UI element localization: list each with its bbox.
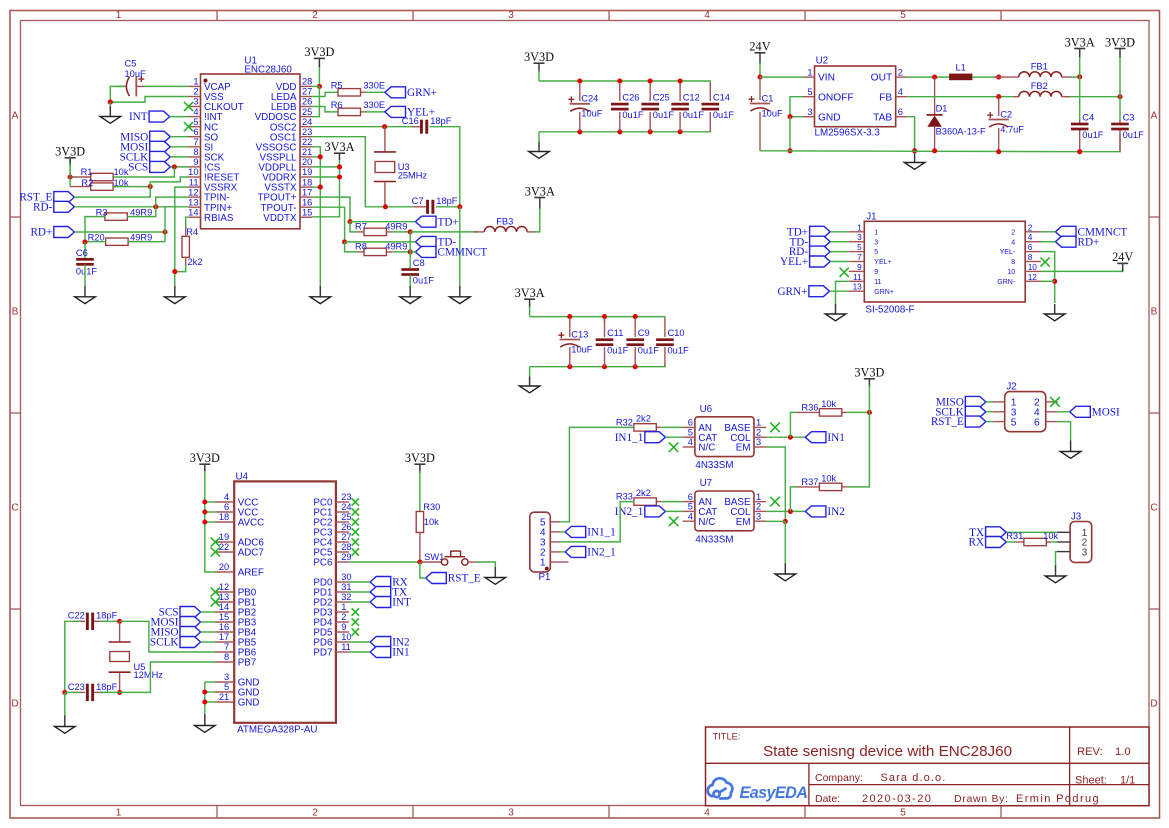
wire C26 top lead xyxy=(619,81,621,87)
svg-text:RST_E: RST_E xyxy=(448,573,481,585)
capacitor C8 0u1F xyxy=(401,258,434,286)
junction RD-/R3/TPIN- xyxy=(153,204,158,209)
wire R36 tap xyxy=(790,412,797,437)
junction xyxy=(108,100,113,105)
wire OUT row xyxy=(907,76,949,78)
ground (oscillator) xyxy=(450,286,471,304)
junction C7/C16/ground xyxy=(457,204,462,209)
svg-text:LM2596SX-3.3: LM2596SX-3.3 xyxy=(815,128,881,139)
wire RX to R31 xyxy=(1006,541,1016,543)
wire junction to C6 xyxy=(84,242,86,258)
wire pin 18 VSSTX xyxy=(312,186,320,188)
svg-text:13: 13 xyxy=(219,592,229,602)
C12 leads xyxy=(679,83,681,132)
svg-text:8: 8 xyxy=(1011,259,1015,266)
svg-text:0u1F: 0u1F xyxy=(76,266,98,276)
svg-text:2k2: 2k2 xyxy=(636,414,651,424)
wire pin 16 TPOUT- to TD- xyxy=(312,207,345,242)
wire pin 14 RBIAS to R4 xyxy=(186,217,189,227)
wire C23 to crystal node xyxy=(100,691,120,693)
wire C4 column xyxy=(1079,77,1081,121)
junction TAB/bus xyxy=(912,148,917,153)
ferrite bead FB1 xyxy=(1019,62,1062,78)
wire pin 11 VSSRX down xyxy=(175,187,189,286)
wire 3V3D down to FB2 junction xyxy=(1119,57,1121,97)
wire PC6 to R30 junction xyxy=(349,561,420,563)
ground (C8) xyxy=(400,286,421,304)
wire TX to J3 pin 1 xyxy=(1006,531,1057,533)
ground (VSSRX/R4) xyxy=(165,286,186,304)
capacitor C4 0u1F xyxy=(1071,112,1104,140)
R4 leads xyxy=(185,226,187,266)
svg-text:2: 2 xyxy=(1011,229,1015,236)
svg-text:3V3A: 3V3A xyxy=(1065,35,1095,49)
FB3 left lead xyxy=(474,231,484,233)
3V3D stem (U4) xyxy=(204,465,206,473)
junction FB1/3V3A/C4 xyxy=(1077,74,1082,79)
wire J1 pin 11 to ground xyxy=(836,281,849,305)
svg-text:3V3D: 3V3D xyxy=(854,366,884,380)
junction SCS/R1 xyxy=(172,164,177,169)
wire 3V3A column xyxy=(312,159,340,217)
svg-text:0u1F: 0u1F xyxy=(653,110,675,120)
svg-text:C3: C3 xyxy=(1123,112,1135,122)
svg-text:3: 3 xyxy=(756,437,761,447)
junction R2/RST_E xyxy=(148,184,153,189)
junction C23/ground xyxy=(62,690,67,695)
wire C11 top lead xyxy=(604,317,606,323)
svg-text:C23: C23 xyxy=(68,682,85,692)
svg-text:3V3A: 3V3A xyxy=(515,286,545,300)
resistor R2 10k xyxy=(70,178,129,190)
svg-text:C12: C12 xyxy=(683,93,700,103)
svg-text:6: 6 xyxy=(688,418,693,428)
power 3V3A (FB3) xyxy=(525,184,555,198)
svg-text:1: 1 xyxy=(540,558,546,569)
svg-text:C10: C10 xyxy=(668,328,685,338)
wire R6 to YEL+ xyxy=(366,111,385,113)
power 3V3A (FB1) xyxy=(1065,35,1095,49)
svg-text:R30: R30 xyxy=(423,502,440,512)
svg-text:10uF: 10uF xyxy=(762,108,784,118)
svg-text:7: 7 xyxy=(224,642,229,652)
svg-text:C7: C7 xyxy=(412,196,424,206)
junction bottom bus C26 xyxy=(617,129,622,134)
3V3D stem (R30) xyxy=(419,465,421,473)
junction VDD xyxy=(317,84,322,89)
C26 leads xyxy=(619,83,621,132)
wire 3V3D to R1 junction xyxy=(69,156,71,177)
svg-text:A: A xyxy=(1151,111,1158,122)
junction C4/bus xyxy=(1077,149,1082,154)
wire VSS pin 2 to node xyxy=(110,97,188,103)
wire FB2 to 3V3D junction xyxy=(1070,96,1120,98)
wire R8 to CMMNCT junction xyxy=(392,251,410,253)
svg-text:C16: C16 xyxy=(402,116,419,126)
junction U6 COL/R36 xyxy=(788,435,793,440)
svg-text:U2: U2 xyxy=(816,56,829,67)
junction top bus C24 xyxy=(577,78,582,83)
svg-text:0u1F: 0u1F xyxy=(668,346,690,356)
wire U7 EM xyxy=(766,520,785,522)
svg-text:49R9: 49R9 xyxy=(385,221,407,231)
svg-text:R3: R3 xyxy=(96,207,108,217)
ground (C5/VSS) xyxy=(100,106,121,123)
junction FB/C2 xyxy=(996,94,1001,99)
junction top bus C26 xyxy=(617,78,622,83)
svg-text:AREF: AREF xyxy=(238,568,264,579)
wire U4 to INT xyxy=(349,601,370,603)
C9 leads xyxy=(634,318,636,367)
power 3V3D (R30) xyxy=(405,451,435,465)
svg-text:PD7: PD7 xyxy=(313,648,332,659)
connector J2 xyxy=(993,382,1058,432)
net flag TD- (J1) xyxy=(789,236,830,248)
no-connect X PD row 622 xyxy=(352,618,359,625)
capacitor C26 0u1F xyxy=(611,93,644,121)
svg-text:A: A xyxy=(12,111,19,122)
junction bottom bus C11 xyxy=(602,364,607,369)
svg-text:21: 21 xyxy=(302,147,312,157)
svg-text:U6: U6 xyxy=(700,404,713,415)
svg-text:1: 1 xyxy=(756,492,761,502)
connector J3 xyxy=(1057,512,1092,563)
net flag YEL+ xyxy=(385,106,435,118)
wire C13 top lead xyxy=(569,317,571,323)
wire U4 GND column xyxy=(204,682,206,714)
C22 leads xyxy=(72,620,106,622)
connector P1 xyxy=(530,512,561,583)
wire P1 pin 5 to R32 xyxy=(560,427,634,521)
net flag IN1 xyxy=(805,432,845,444)
svg-text:18pF: 18pF xyxy=(96,682,118,692)
net flag IN2 xyxy=(805,506,845,518)
svg-text:18: 18 xyxy=(219,512,229,522)
junction R7/FB3 xyxy=(408,229,413,234)
wire J1 pin 6 YEL- down xyxy=(1041,252,1055,303)
net flag TX (J3) xyxy=(969,527,1006,539)
svg-text:3V3D: 3V3D xyxy=(190,451,220,465)
3V3D stem (cap bank) xyxy=(538,64,540,72)
no-connect X U6 N/C xyxy=(669,442,679,452)
wire pin 24 OSC2 to C16 xyxy=(312,126,414,128)
svg-text:IN2_1: IN2_1 xyxy=(615,506,644,518)
svg-text:R8: R8 xyxy=(355,241,367,251)
wire R31 to J3 pin 2 xyxy=(1051,541,1057,543)
net flag RD+ (J1) xyxy=(1055,236,1099,248)
wire U6 EM down xyxy=(766,447,785,521)
power 3V3D (cap bank) xyxy=(524,50,554,64)
3V3A stem (FB3) xyxy=(539,198,541,209)
net flag MISO (U4) xyxy=(151,627,201,639)
wire J2 pin 4 to MOSI xyxy=(1058,411,1070,413)
svg-text:3V3D: 3V3D xyxy=(524,50,554,64)
FB1 right lead xyxy=(1062,76,1072,78)
svg-text:9: 9 xyxy=(341,622,346,632)
wire TD- down to R8 xyxy=(345,242,358,252)
wire U4 GND rows xyxy=(205,681,216,683)
wire pin 17 TPOUT+ to TD+ xyxy=(312,197,350,222)
junction top bus C9 xyxy=(633,314,638,319)
svg-text:22: 22 xyxy=(302,137,312,147)
svg-text:4: 4 xyxy=(704,808,710,819)
wire R7 junction down to R8 junction xyxy=(409,232,411,252)
svg-text:16: 16 xyxy=(219,622,229,632)
svg-text:R5: R5 xyxy=(331,80,343,90)
svg-text:27: 27 xyxy=(302,87,312,97)
svg-text:YEL+: YEL+ xyxy=(780,256,808,268)
junction VSSTX xyxy=(318,185,323,190)
wire EM to ground xyxy=(784,521,786,564)
C24 leads xyxy=(579,83,581,132)
svg-text:0u1F: 0u1F xyxy=(638,346,660,356)
wire RST_E to J2 xyxy=(986,421,993,423)
power 24V (J1) xyxy=(1112,250,1133,264)
3V3A stem (3V3A bank) xyxy=(529,300,531,308)
svg-text:12: 12 xyxy=(188,187,198,197)
svg-text:J1: J1 xyxy=(866,211,876,222)
svg-text:2: 2 xyxy=(1028,222,1033,232)
svg-text:10k: 10k xyxy=(821,399,836,409)
svg-text:SCS: SCS xyxy=(128,162,148,174)
svg-text:4.7uF: 4.7uF xyxy=(1000,124,1024,134)
resistor R5 330E xyxy=(331,80,385,96)
wire RD- to J1 xyxy=(830,251,849,253)
svg-text:32: 32 xyxy=(341,592,351,602)
wire TPIN+ vertical xyxy=(164,207,166,242)
svg-text:9: 9 xyxy=(874,269,878,276)
svg-text:C: C xyxy=(1150,503,1157,514)
junction bottom bus C25 xyxy=(648,129,653,134)
wire P1 pin 4 to IN1_1 xyxy=(560,531,565,533)
svg-text:13: 13 xyxy=(853,282,863,292)
wire R1 to SCS junction xyxy=(113,167,174,177)
svg-text:R7: R7 xyxy=(355,221,367,231)
no-connect X PC row 522 xyxy=(352,518,359,525)
junction 3V3D/R1/R2 xyxy=(68,174,73,179)
svg-text:IN1: IN1 xyxy=(392,647,409,659)
ground (J1 right) xyxy=(1044,304,1065,321)
wire GRN+ to J1 pin 13 xyxy=(830,290,849,292)
net flag IN2 (U4) xyxy=(370,637,410,649)
svg-text:3: 3 xyxy=(874,239,878,246)
wire INT to pin 4 xyxy=(170,116,189,118)
svg-text:0u1F: 0u1F xyxy=(622,110,644,120)
svg-text:2: 2 xyxy=(898,67,903,77)
no-connect X PC row 512 xyxy=(352,508,359,515)
svg-text:IN1_1: IN1_1 xyxy=(615,432,644,444)
wire IN1_1 to U6 CAT xyxy=(665,436,682,438)
wire VCC row 522 xyxy=(205,521,216,523)
C4 leads xyxy=(1079,120,1081,152)
junction top bus C13 xyxy=(567,314,572,319)
svg-text:5: 5 xyxy=(874,249,878,256)
no-connect X U7 N/C xyxy=(669,517,679,527)
junction C23/U5/PB7 xyxy=(117,690,122,695)
svg-text:FB: FB xyxy=(879,92,892,103)
wire FB3 row xyxy=(410,231,478,233)
svg-text:RD+: RD+ xyxy=(1078,236,1100,248)
net flag SCS xyxy=(128,161,170,173)
no-connect X U7 BASE xyxy=(770,497,780,507)
wire C5 left to VSS node xyxy=(110,86,125,102)
wire R7 to FB3 junction xyxy=(392,231,410,233)
svg-text:11: 11 xyxy=(341,642,351,652)
svg-text:R2: R2 xyxy=(81,178,93,188)
crystal U5 12MHz xyxy=(109,621,164,692)
svg-text:4N33SM: 4N33SM xyxy=(695,460,733,471)
wire J2 pin 6 to ground xyxy=(1058,422,1071,441)
wire R4 to VSSRX vertical xyxy=(175,265,186,272)
svg-text:9: 9 xyxy=(857,262,862,272)
ground (3V3A bank) xyxy=(519,377,540,393)
no-connect X J2 pin 2 xyxy=(1050,397,1060,407)
svg-text:3V3D: 3V3D xyxy=(1105,35,1135,49)
svg-text:1: 1 xyxy=(807,67,812,77)
wire osc ground column xyxy=(459,207,461,286)
wire R3 left to C6 node xyxy=(85,217,105,243)
capacitor C14 0u1F xyxy=(702,93,735,121)
wire MISO to U4 xyxy=(201,631,216,633)
junction VSSRX/R4 xyxy=(172,269,177,274)
junction U4 power 512 xyxy=(202,509,207,514)
svg-text:2: 2 xyxy=(312,808,318,819)
net flag MISO (J2) xyxy=(936,396,986,408)
svg-text:D1: D1 xyxy=(936,104,948,114)
FB3 right lead xyxy=(527,231,536,233)
wire C22 to crystal node xyxy=(100,620,120,622)
power 3V3D (FB2) xyxy=(1105,35,1135,49)
svg-text:5: 5 xyxy=(1011,417,1017,428)
capacitor C24 10uF (polarized) xyxy=(568,94,603,119)
svg-text:3: 3 xyxy=(508,10,514,21)
svg-text:1/1: 1/1 xyxy=(1120,775,1135,787)
svg-text:10k: 10k xyxy=(1043,531,1058,541)
svg-text:N/C: N/C xyxy=(698,443,715,454)
capacitor C1 10uF (polarized) xyxy=(749,93,784,118)
capacitor C10 0u1F xyxy=(656,328,689,356)
net flag IN1_1 (P1) xyxy=(565,526,616,538)
svg-text:ENC28J60: ENC28J60 xyxy=(244,65,292,76)
C16 left lead xyxy=(412,126,420,128)
capacitor C3 0u1F xyxy=(1111,112,1144,140)
svg-text:Drawn By:: Drawn By: xyxy=(954,793,1009,805)
svg-text:0u1F: 0u1F xyxy=(413,275,435,285)
junction OUT/D1 xyxy=(932,75,937,80)
svg-text:27: 27 xyxy=(341,532,351,542)
wire junction down to C8 xyxy=(409,252,411,268)
svg-text:2: 2 xyxy=(756,427,761,437)
svg-text:24V: 24V xyxy=(1112,250,1133,264)
wire YEL+ to J1 xyxy=(830,261,849,263)
wire R3 to RD- junction xyxy=(127,207,156,217)
svg-text:4: 4 xyxy=(704,10,710,21)
wire FB row xyxy=(907,96,1019,98)
svg-text:Date:: Date: xyxy=(815,793,840,805)
svg-text:6: 6 xyxy=(688,492,693,502)
resistor R30 body xyxy=(416,512,423,533)
svg-text:31: 31 xyxy=(341,582,351,592)
svg-text:15: 15 xyxy=(302,207,312,217)
junction top bus C11 xyxy=(602,314,607,319)
wire GND pin to column xyxy=(790,116,803,118)
wire TD+ to J1 xyxy=(830,231,849,233)
svg-text:INT: INT xyxy=(392,597,411,609)
svg-text:3: 3 xyxy=(807,107,812,117)
P1 pin 1 stub xyxy=(560,561,568,563)
svg-text:YEL+: YEL+ xyxy=(874,259,891,266)
svg-text:10: 10 xyxy=(1028,262,1038,272)
svg-text:24: 24 xyxy=(341,502,351,512)
net flag SCLK xyxy=(120,151,171,163)
svg-text:12: 12 xyxy=(1028,272,1038,282)
svg-text:Ermin Podrug: Ermin Podrug xyxy=(1016,793,1100,805)
wire VCC row 512 xyxy=(205,511,216,513)
wire 24V down to VIN node xyxy=(759,62,761,77)
wire GND column to bus xyxy=(789,117,791,151)
svg-text:PB7: PB7 xyxy=(238,658,257,669)
wire R37 tap xyxy=(790,487,797,512)
net flag SCLK (U4) xyxy=(150,637,201,649)
wire 3V3D to top bus xyxy=(538,71,540,81)
wire IN2_1 to U7 CAT xyxy=(665,510,682,512)
wire R5 to GRN+ xyxy=(366,91,385,93)
wire pin 26 LEDB to R6 xyxy=(312,107,338,112)
junction D1/bus xyxy=(932,148,937,153)
svg-text:10k: 10k xyxy=(821,473,836,483)
wire C25 top lead xyxy=(649,81,651,87)
junction R20/R3/C6 xyxy=(82,240,87,245)
wire R33 to U7 AN xyxy=(662,501,683,503)
svg-text:11: 11 xyxy=(189,177,199,187)
svg-text:30: 30 xyxy=(341,572,351,582)
wire U4 to IN1 xyxy=(349,651,370,653)
junction VDDPLL xyxy=(337,164,342,169)
svg-text:INT: INT xyxy=(129,111,148,123)
cap bank top bus xyxy=(539,81,710,83)
U2 ground bus xyxy=(760,134,1120,152)
connector J1 SI-52008-F xyxy=(849,211,1041,315)
R30 leads xyxy=(419,533,421,563)
junction GND bus xyxy=(787,148,792,153)
svg-text:TITLE:: TITLE: xyxy=(713,732,741,742)
net flag TD- xyxy=(415,236,456,248)
net flag MOSI (J2) xyxy=(1070,406,1120,418)
junction U4 power 522 xyxy=(202,519,207,524)
svg-text:RD+: RD+ xyxy=(30,227,52,239)
wire pin 22 VSSOSC down VSS column xyxy=(312,147,320,286)
wire MOSI to U4 xyxy=(201,621,216,623)
svg-text:4: 4 xyxy=(193,107,198,117)
junction U4 GND 5 xyxy=(202,689,207,694)
svg-text:7: 7 xyxy=(857,252,862,262)
C14 leads xyxy=(709,83,711,132)
svg-text:GRN+: GRN+ xyxy=(407,87,437,99)
svg-text:ADC7: ADC7 xyxy=(238,548,264,559)
svg-text:25: 25 xyxy=(302,107,312,117)
3V3D stem (U1 VDD) xyxy=(318,59,320,67)
wire C24 top lead xyxy=(579,81,581,87)
svg-text:U4: U4 xyxy=(236,472,249,483)
svg-text:3: 3 xyxy=(508,808,514,819)
svg-text:9: 9 xyxy=(193,157,198,167)
svg-text:D: D xyxy=(11,699,18,710)
svg-text:0u1F: 0u1F xyxy=(683,110,705,120)
wire pin 12 TPIN- to junction xyxy=(156,197,189,207)
junction L1/FB1 xyxy=(996,75,1001,80)
svg-text:R4: R4 xyxy=(186,227,198,237)
svg-text:B: B xyxy=(12,307,19,318)
